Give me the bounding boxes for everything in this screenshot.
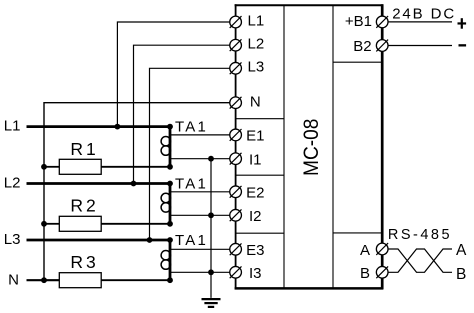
junction on L1 line [115, 124, 121, 130]
svg-text:MC-08: MC-08 [300, 119, 323, 176]
terminal N [230, 97, 242, 109]
svg-text:R1: R1 [70, 139, 98, 159]
svg-text:L1: L1 [248, 12, 265, 29]
wire N line left segment [27, 279, 60, 281]
svg-text:RS-485: RS-485 [388, 227, 452, 243]
terminal I3 [230, 266, 242, 278]
terminal E2 [230, 186, 242, 198]
wire L3 phase line [27, 239, 171, 242]
transformer TA1 secondary winding [161, 137, 170, 146]
wire N line from R3 to TA3 [101, 279, 170, 281]
wire R1 left [44, 166, 59, 168]
wire TA1 to terminal I1 [170, 158, 230, 160]
wire from terminal L2 to L2 line [134, 45, 230, 183]
junction I3 / ground line [208, 269, 214, 275]
junction neutral / N line [41, 277, 47, 283]
terminal B2 [376, 40, 388, 52]
svg-text:E1: E1 [246, 128, 264, 145]
svg-text:TA1: TA1 [175, 175, 208, 192]
wire RS-485 B twisted pair [388, 249, 452, 272]
svg-text:TA1: TA1 [175, 232, 208, 249]
svg-text:R3: R3 [70, 252, 98, 272]
svg-text:I3: I3 [249, 265, 262, 282]
wire from terminal L3 to L3 line [150, 68, 230, 240]
ground [202, 299, 221, 307]
wire TA3 to terminal I3 [170, 271, 230, 273]
transformer TA3 secondary winding [161, 251, 170, 260]
junction TA1 bottom [167, 164, 173, 170]
terminal E1 [230, 129, 242, 141]
svg-text:L3: L3 [248, 59, 265, 76]
transformer TA2 secondary winding [161, 193, 170, 202]
svg-text:B: B [360, 265, 370, 282]
svg-text:B: B [456, 266, 466, 283]
svg-text:A: A [456, 242, 467, 259]
resistor R1 [59, 159, 101, 174]
wire L2 phase line [27, 182, 171, 185]
wire B2 to minus [388, 45, 452, 47]
transformer TA3 primary bar [169, 240, 172, 280]
junction neutral / R2 [41, 221, 47, 227]
resistor R3 [59, 273, 101, 288]
wire L1 phase line [27, 125, 171, 128]
svg-text:A: A [360, 242, 370, 259]
wire TA2 to terminal I2 [170, 214, 230, 216]
junction I2 / ground line [208, 212, 214, 218]
plus sign [458, 18, 467, 29]
wire TA1 to terminal E1 [170, 134, 230, 136]
junction I1 / ground line [208, 156, 214, 162]
wire from terminal N to common neutral [44, 103, 230, 281]
terminal L2 [230, 39, 242, 51]
svg-text:TA1: TA1 [175, 118, 208, 135]
svg-text:I2: I2 [249, 208, 262, 225]
junction TA1 top [167, 124, 173, 130]
svg-text:L3: L3 [4, 231, 21, 248]
svg-text:+B1: +B1 [345, 13, 372, 30]
wire TA3 to terminal E3 [170, 248, 230, 250]
wire from terminal L1 to L1 line [117, 22, 229, 127]
transformer TA1 primary bar [169, 127, 172, 167]
svg-text:E2: E2 [246, 184, 264, 201]
wire RS-485 A twisted pair [388, 249, 452, 272]
divider below B2 [333, 61, 382, 63]
junction TA2 bottom [167, 221, 173, 227]
minus sign [459, 44, 467, 46]
terminal B1 [376, 16, 388, 28]
wire R2 right to TA2 [101, 223, 170, 225]
junction TA3 bottom [167, 277, 173, 283]
svg-text:N: N [250, 94, 261, 111]
terminal E3 [230, 243, 242, 255]
resistor R2 [59, 216, 101, 231]
terminal A [376, 243, 388, 255]
wire R2 left [44, 223, 59, 225]
junction on L2 line [131, 181, 137, 187]
device internal separator left [283, 5, 285, 288]
svg-text:L2: L2 [4, 175, 21, 192]
device internal separator right [332, 5, 334, 288]
svg-text:N: N [8, 271, 19, 288]
svg-text:I1: I1 [249, 151, 262, 168]
wire TA2 to terminal E2 [170, 191, 230, 193]
divider below I2 [236, 232, 284, 234]
terminal B [376, 266, 388, 278]
terminal I2 [230, 209, 242, 221]
svg-text:24B DC: 24B DC [392, 5, 456, 22]
terminal L1 [230, 16, 242, 28]
terminal L3 [230, 62, 242, 74]
device MC-08 outline [235, 4, 384, 289]
wire +B1 to plus [388, 21, 452, 23]
wire R1 right to TA1 [101, 166, 170, 168]
terminal I1 [230, 153, 242, 165]
transformer TA2 primary bar [169, 184, 172, 224]
divider below I1 [236, 174, 284, 176]
svg-text:R2: R2 [70, 196, 98, 216]
junction TA2 top [167, 181, 173, 187]
junction on L3 line [147, 237, 153, 243]
svg-text:L1: L1 [4, 118, 21, 135]
junction TA3 top [167, 237, 173, 243]
divider below N group [236, 118, 284, 120]
svg-text:E3: E3 [246, 242, 264, 259]
junction neutral / R1 [41, 164, 47, 170]
wire ground line [210, 159, 212, 298]
divider above A [333, 232, 382, 234]
svg-text:L2: L2 [248, 36, 265, 53]
svg-text:B2: B2 [353, 38, 371, 55]
